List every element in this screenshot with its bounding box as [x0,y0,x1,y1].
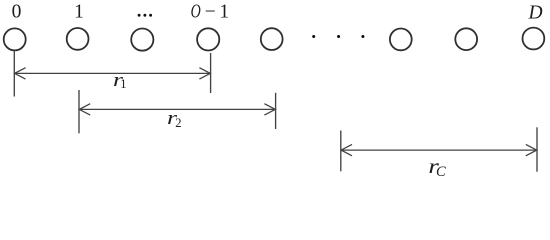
node circle D-2 [390,29,412,51]
label 1 [74,2,84,23]
svg-text:1: 1 [74,2,84,23]
label ellipsis [138,14,152,17]
label 0 [12,2,22,23]
svg-text:1: 1 [120,77,126,91]
node circle O-1 [197,28,219,50]
node circle D [523,28,545,50]
label O-1 [191,0,229,22]
node circle 2 [131,28,153,50]
svg-text:−: − [205,2,216,23]
node circle 1 [67,28,89,50]
tick left of rC [340,131,342,172]
node circle 0 [4,28,26,50]
dimension arrow r1 [14,68,210,79]
node circle D-1 [455,28,477,50]
svg-text:1: 1 [219,2,229,23]
svg-text:2: 2 [175,116,181,130]
svg-text:0: 0 [12,2,22,23]
tick right of r2 [275,93,277,129]
label rC [428,154,446,180]
dimension arrow rC [341,144,537,155]
svg-text:O: O [191,0,201,22]
node circle O [261,28,283,50]
svg-text:D: D [527,2,542,23]
label r1 [113,69,127,91]
tick left of r1 [13,50,15,96]
dots ellipsis between nodes [312,35,364,38]
tick right of r1 [210,53,212,93]
label r2 [167,107,182,130]
label D [527,2,542,23]
tick right of rC [536,127,538,171]
dimension arrow r2 [79,104,276,115]
tick left of r2 [78,90,80,133]
svg-text:C: C [436,164,446,180]
